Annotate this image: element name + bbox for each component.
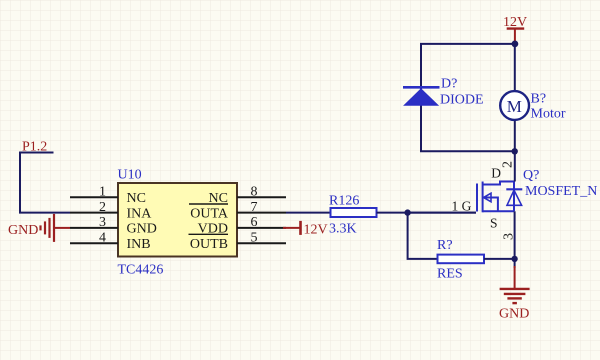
wire drain (motor to MOSFET) [514, 120, 516, 182]
svg-text:INA: INA [127, 206, 153, 221]
pin 8 NC [209, 185, 286, 206]
wire source to GND [514, 211, 516, 268]
svg-text:R126: R126 [329, 194, 359, 209]
svg-text:B?: B? [531, 92, 547, 107]
svg-text:3.3K: 3.3K [329, 222, 357, 237]
svg-text:OUTB: OUTB [190, 237, 228, 252]
diode D? [403, 87, 440, 105]
pin 1 NC [70, 185, 146, 206]
svg-text:2: 2 [99, 200, 106, 215]
power port GND (bottom) [499, 266, 530, 322]
svg-text:12V: 12V [304, 223, 328, 238]
svg-text:6: 6 [251, 215, 258, 230]
svg-text:1 G: 1 G [452, 199, 472, 214]
pin 5 OUTB [189, 231, 287, 253]
wire OUTA to R126 [286, 212, 331, 214]
wire 12V node to motor [514, 44, 516, 91]
power port GND (left, at pin 3) [8, 214, 70, 242]
svg-text:1: 1 [99, 185, 106, 200]
junction motor/diode bottom node [512, 148, 518, 154]
svg-text:D?: D? [441, 77, 457, 92]
pin 7 OUTA [189, 200, 286, 221]
wire gate (node to gate bar) [408, 212, 476, 214]
svg-text:3: 3 [99, 215, 106, 230]
svg-text:M: M [507, 97, 522, 116]
junction source node [511, 256, 517, 262]
power port 12V (at pin 6 VDD) [283, 221, 328, 238]
svg-text:Q?: Q? [523, 168, 539, 183]
IC U10 TC4426 body [118, 183, 237, 257]
svg-text:INB: INB [127, 237, 151, 252]
pin 3 GND [70, 215, 157, 236]
motor B? [500, 91, 529, 120]
svg-text:GND: GND [127, 222, 157, 237]
pin 2 INA [70, 200, 152, 221]
junction gate node [404, 209, 410, 215]
resistor R? [438, 255, 485, 264]
pin 4 INB [70, 231, 151, 253]
svg-text:R?: R? [437, 238, 453, 253]
wire gate node to R? [408, 213, 438, 259]
svg-text:U10: U10 [118, 168, 142, 183]
svg-text:GND: GND [499, 307, 529, 322]
svg-text:Motor: Motor [531, 107, 566, 122]
svg-text:TC4426: TC4426 [118, 263, 164, 278]
svg-text:OUTA: OUTA [190, 206, 229, 221]
svg-text:GND: GND [8, 223, 38, 238]
svg-text:NC: NC [127, 191, 146, 206]
svg-text:5: 5 [251, 231, 258, 246]
svg-text:S: S [490, 216, 498, 231]
resistor R126 [331, 208, 377, 217]
svg-text:8: 8 [251, 185, 258, 200]
transistor Q? MOSFET_N [452, 161, 523, 240]
svg-text:RES: RES [437, 267, 463, 282]
svg-text:4: 4 [99, 231, 106, 246]
svg-text:MOSFET_N: MOSFET_N [525, 184, 597, 199]
svg-text:DIODE: DIODE [440, 93, 484, 108]
wire R126 to gate node [377, 212, 477, 214]
power port 12V (top) [503, 15, 527, 44]
wire R? to source node [484, 258, 515, 260]
wire P1.2 stub to INA [20, 153, 70, 213]
svg-text:7: 7 [251, 200, 258, 215]
svg-text:2: 2 [501, 161, 516, 168]
pin 6 VDD [198, 215, 286, 236]
junction 12V node [512, 41, 519, 48]
wire diode loop [421, 44, 515, 151]
